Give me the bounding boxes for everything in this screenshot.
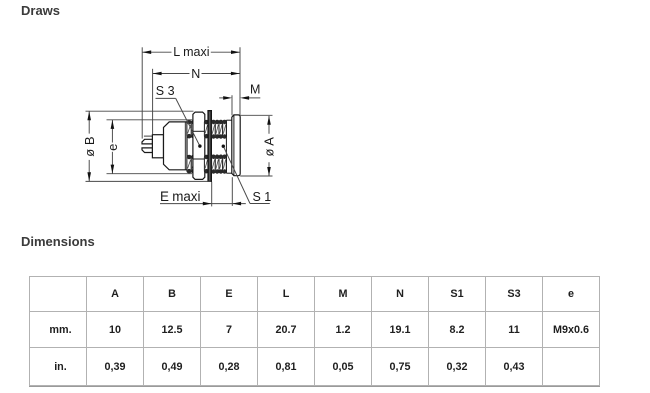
thread runout cylinder xyxy=(226,120,231,173)
dimension diameter A xyxy=(267,116,271,176)
front flange xyxy=(232,115,240,176)
threaded section M9 bottom xyxy=(212,155,227,174)
svg-text:e: e xyxy=(105,144,120,151)
heading Dimensions xyxy=(21,234,95,249)
lock washer xyxy=(208,110,212,181)
extension lines diameter A xyxy=(240,115,272,176)
extension line right (L N M) xyxy=(239,47,241,115)
svg-text:Emaxi: Emaxi xyxy=(160,189,200,204)
dimension L maxi xyxy=(142,50,240,54)
dimensions table xyxy=(29,276,600,386)
svg-text:N: N xyxy=(191,67,200,81)
extension lines e xyxy=(107,120,194,174)
dimension M xyxy=(219,96,260,100)
label S 1 with leader xyxy=(222,145,270,204)
extension line M left xyxy=(231,95,233,115)
svg-text:ø A: ø A xyxy=(262,137,277,157)
dimension e xyxy=(111,120,115,174)
contact pin top xyxy=(142,139,153,144)
pin insulator base xyxy=(152,135,163,158)
hex nut S3 xyxy=(193,112,205,179)
svg-text:M: M xyxy=(250,83,260,97)
svg-text:S 1: S 1 xyxy=(253,190,272,204)
svg-text:ø B: ø B xyxy=(82,136,97,156)
dimension diameter B xyxy=(87,111,91,181)
thread stub right of nut xyxy=(204,120,208,173)
heading Draws xyxy=(21,3,60,18)
bottom rule under table xyxy=(29,386,600,388)
thread stub left of nut xyxy=(187,120,196,173)
dimension N xyxy=(153,72,240,76)
dimension E maxi xyxy=(160,177,246,206)
label S 3 with leader xyxy=(156,98,202,147)
svg-text:S 3: S 3 xyxy=(156,84,175,98)
contact pin bottom xyxy=(142,148,153,153)
extension line N left xyxy=(152,69,154,135)
extension lines diameter B xyxy=(86,111,211,181)
threaded section M9 top xyxy=(212,120,227,138)
connector body shell xyxy=(164,122,188,170)
svg-text:L maxi: L maxi xyxy=(173,45,209,59)
pin center contact line xyxy=(144,135,153,137)
extension line L left xyxy=(141,47,143,138)
